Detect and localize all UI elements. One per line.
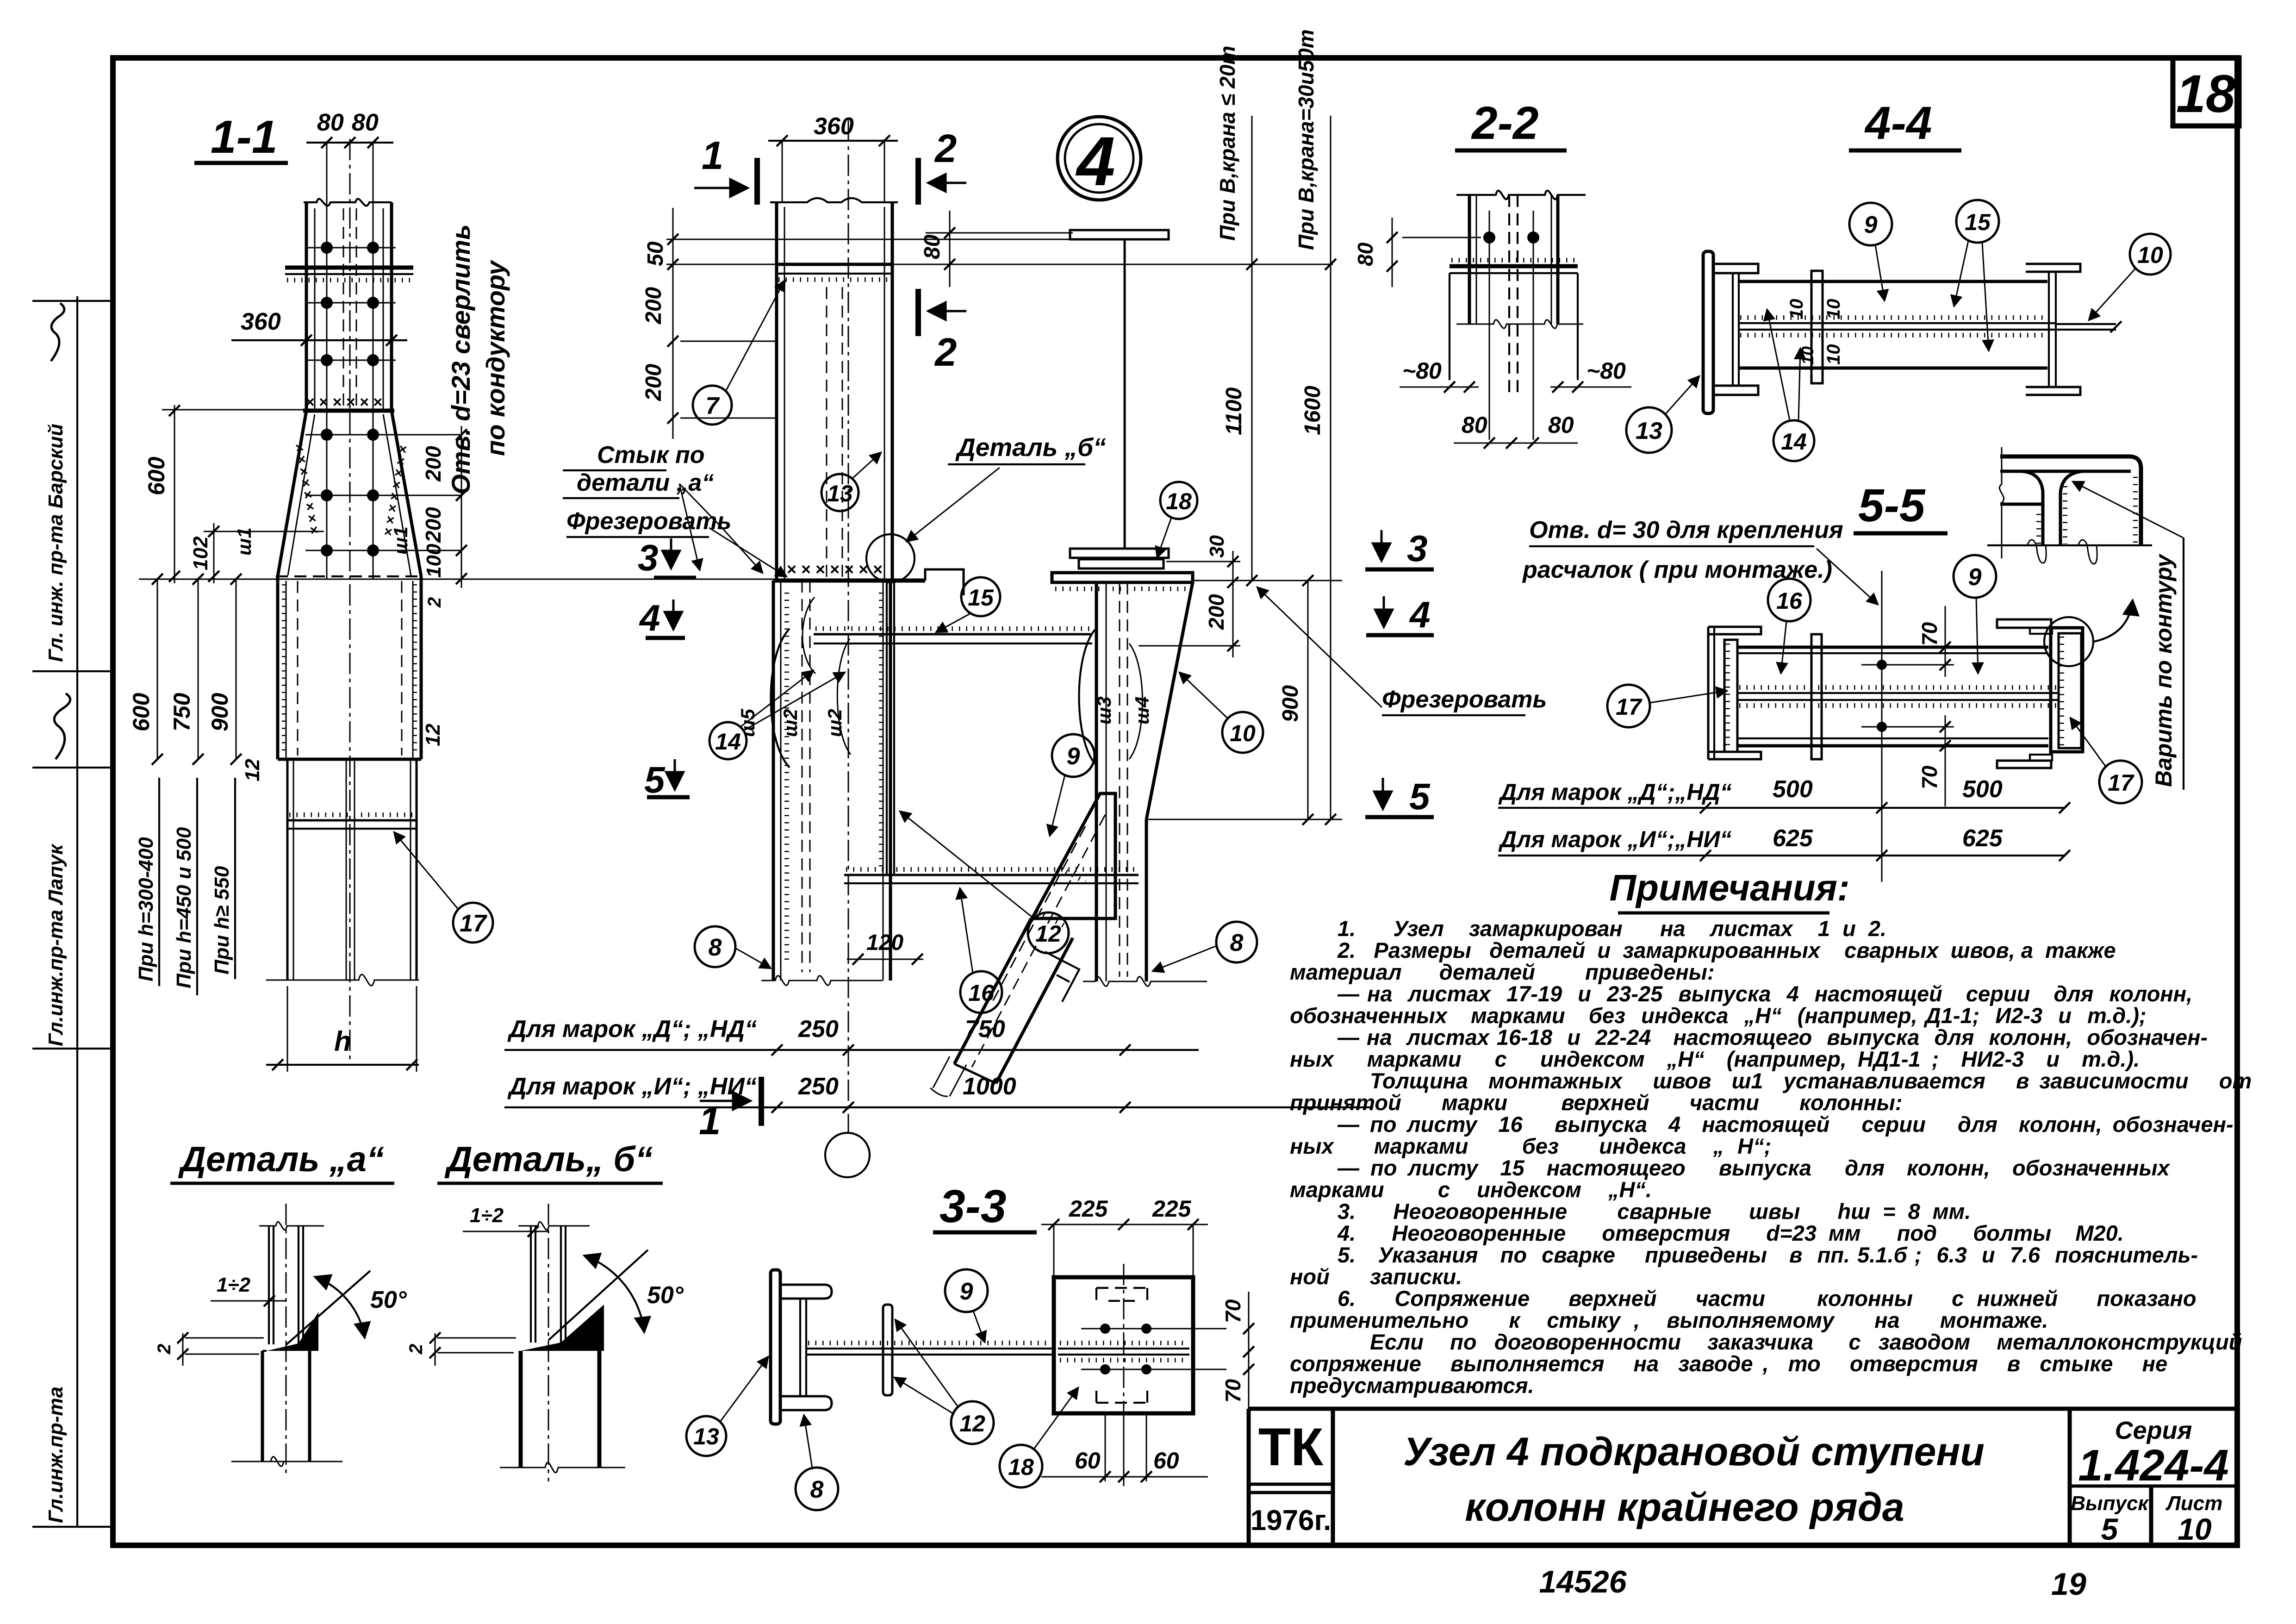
svg-text:7: 7 — [706, 393, 720, 419]
svg-text:50°: 50° — [647, 1282, 684, 1309]
svg-text:600: 600 — [128, 693, 154, 731]
svg-text:5. Указания по сварке: 5. Указания по сварке приведены в пп. 5.… — [1338, 1243, 2198, 1267]
svg-text:3: 3 — [1407, 528, 1428, 569]
svg-text:200: 200 — [641, 287, 666, 325]
svg-text:1÷2: 1÷2 — [470, 1204, 504, 1227]
svg-text:детали „а“: детали „а“ — [577, 469, 714, 496]
svg-text:Для марок „И“;„НИ“: Для марок „И“;„НИ“ — [1498, 826, 1731, 852]
svg-text:70: 70 — [1221, 1299, 1245, 1323]
svg-text:2: 2 — [424, 597, 445, 608]
svg-text:Лист: Лист — [2165, 1492, 2223, 1515]
svg-text:4. Неоговоренные отверстия: 4. Неоговоренные отверстия d=23 мм под б… — [1337, 1221, 2124, 1245]
svg-text:625: 625 — [1773, 825, 1813, 852]
svg-text:Серия: Серия — [2115, 1417, 2192, 1444]
svg-text:625: 625 — [1962, 825, 2003, 852]
svg-text:марками с индексом „Н“.: марками с индексом „Н“. — [1290, 1177, 1652, 1202]
svg-text:колонн крайнего ряда: колонн крайнего ряда — [1465, 1485, 1904, 1530]
svg-text:14526: 14526 — [1539, 1564, 1627, 1599]
svg-text:4: 4 — [639, 597, 660, 638]
svg-text:4: 4 — [1075, 122, 1115, 200]
svg-text:Примечания:: Примечания: — [1609, 867, 1849, 908]
svg-text:ш4: ш4 — [1131, 696, 1153, 725]
svg-text:При В,крана=30и50т: При В,крана=30и50т — [1294, 29, 1318, 250]
svg-text:Стык по: Стык по — [597, 442, 705, 468]
svg-text:2: 2 — [934, 127, 957, 171]
svg-text:6. Сопряжение верхней ча: 6. Сопряжение верхней части колонны с ни… — [1338, 1286, 2196, 1311]
svg-text:5-5: 5-5 — [1858, 480, 1926, 531]
svg-text:сопряжение выполняется на: сопряжение выполняется на заводе , то от… — [1290, 1351, 2167, 1376]
svg-text:70: 70 — [1917, 765, 1941, 789]
svg-text:При В,крана ≤ 20т: При В,крана ≤ 20т — [1215, 46, 1239, 241]
svg-text:15: 15 — [1965, 209, 1991, 235]
svg-text:ных марками с индексом: ных марками с индексом „Н“ (например, НД… — [1290, 1047, 2140, 1071]
svg-text:250: 250 — [798, 1016, 839, 1043]
svg-text:70: 70 — [1221, 1379, 1245, 1403]
svg-text:9: 9 — [1968, 564, 1982, 591]
svg-text:8: 8 — [1230, 930, 1244, 956]
svg-text:1.424-4: 1.424-4 — [2078, 1441, 2229, 1490]
svg-text:ш2: ш2 — [824, 709, 846, 737]
svg-text:Гл.инж.пр-та Лапук: Гл.инж.пр-та Лапук — [44, 843, 67, 1046]
svg-text:При h≥ 550: При h≥ 550 — [211, 866, 233, 974]
svg-text:1: 1 — [699, 1099, 721, 1143]
svg-text:Отв. d=23 сверлить: Отв. d=23 сверлить — [446, 225, 475, 494]
svg-text:Для марок „Д“; „НД“: Для марок „Д“; „НД“ — [507, 1016, 757, 1043]
svg-text:8: 8 — [709, 934, 722, 961]
svg-text:При h=450 и 500: При h=450 и 500 — [173, 827, 195, 988]
svg-text:1100: 1100 — [1222, 387, 1246, 435]
svg-text:200: 200 — [1204, 594, 1228, 630]
svg-text:80: 80 — [317, 109, 344, 136]
svg-text:13: 13 — [827, 481, 853, 506]
svg-text:5: 5 — [644, 759, 666, 800]
svg-text:h: h — [334, 1026, 351, 1057]
svg-text:1600: 1600 — [1300, 386, 1325, 435]
svg-text:750: 750 — [169, 693, 195, 731]
svg-text:1-1: 1-1 — [211, 111, 278, 163]
svg-text:~80: ~80 — [1587, 358, 1626, 384]
svg-text:17: 17 — [2108, 770, 2134, 796]
svg-text:750: 750 — [965, 1016, 1005, 1043]
svg-text:200: 200 — [421, 446, 445, 482]
svg-text:9: 9 — [1067, 743, 1080, 770]
svg-text:ных марками без индекса: ных марками без индекса „ Н“; — [1290, 1134, 1771, 1158]
svg-text:12: 12 — [959, 1411, 985, 1437]
svg-text:Если по договоренности за: Если по договоренности заказчика с завод… — [1370, 1330, 2242, 1354]
svg-text:9: 9 — [960, 1278, 973, 1305]
svg-text:900: 900 — [1278, 685, 1303, 722]
svg-text:10: 10 — [2178, 1512, 2212, 1546]
svg-text:50°: 50° — [370, 1287, 407, 1313]
svg-text:Выпуск: Выпуск — [2071, 1492, 2149, 1515]
svg-text:Отв. d= 30 для крепления: Отв. d= 30 для крепления — [1529, 517, 1843, 543]
svg-text:13: 13 — [693, 1424, 719, 1449]
svg-text:ш2: ш2 — [779, 709, 801, 737]
svg-text:60: 60 — [1075, 1448, 1101, 1474]
svg-text:— по листу 16 выпуска 4 н: — по листу 16 выпуска 4 настоящей серии … — [1337, 1112, 2234, 1137]
svg-text:ТК: ТК — [1258, 1418, 1324, 1477]
svg-text:8: 8 — [810, 1476, 824, 1503]
svg-text:Для марок „И“; „НИ“: Для марок „И“; „НИ“ — [507, 1073, 757, 1100]
svg-text:13: 13 — [1636, 418, 1662, 444]
svg-text:Толщина монтажных швов ш1: Толщина монтажных швов ш1 устанавливаетс… — [1370, 1068, 2252, 1093]
svg-text:10: 10 — [1823, 344, 1844, 365]
svg-text:10: 10 — [2137, 242, 2163, 268]
svg-text:1÷2: 1÷2 — [217, 1274, 251, 1296]
svg-text:18: 18 — [2176, 64, 2235, 124]
svg-text:200: 200 — [641, 364, 666, 401]
svg-text:4: 4 — [1409, 594, 1431, 635]
svg-text:ш1: ш1 — [390, 526, 411, 555]
svg-text:Варить по контуру: Варить по контуру — [2151, 554, 2177, 787]
svg-text:принятой марки верхней: принятой марки верхней части колонны: — [1290, 1090, 1903, 1115]
svg-text:100: 100 — [423, 543, 445, 578]
svg-text:ной записки.: ной записки. — [1290, 1264, 1462, 1289]
svg-text:по кондуктору: по кондуктору — [481, 259, 510, 456]
svg-text:~80: ~80 — [1402, 358, 1442, 384]
svg-text:80: 80 — [1353, 242, 1377, 266]
svg-text:Фрезеровать: Фрезеровать — [566, 508, 731, 535]
svg-text:1000: 1000 — [963, 1073, 1016, 1100]
svg-text:2. Размеры деталей и зам: 2. Размеры деталей и замаркированных сва… — [1337, 938, 2116, 962]
svg-text:ш3: ш3 — [1093, 696, 1115, 725]
svg-text:применительно к стыку , вы: применительно к стыку , выполняемому на … — [1290, 1308, 2048, 1332]
svg-text:10: 10 — [1786, 299, 1807, 320]
svg-text:30: 30 — [1206, 535, 1228, 558]
svg-text:60: 60 — [1153, 1448, 1179, 1474]
svg-text:14: 14 — [715, 729, 741, 755]
svg-text:16: 16 — [1776, 588, 1803, 614]
svg-text:4-4: 4-4 — [1864, 97, 1932, 149]
svg-text:80: 80 — [920, 234, 945, 259]
svg-text:225: 225 — [1152, 1196, 1192, 1222]
svg-text:1. Узел замаркирован на: 1. Узел замаркирован на листах 1 и 2. — [1338, 916, 1886, 941]
svg-text:12: 12 — [422, 724, 444, 746]
svg-text:200: 200 — [421, 507, 445, 543]
svg-text:1976г.: 1976г. — [1251, 1505, 1332, 1537]
svg-text:материал деталей приведен: материал деталей приведены: — [1290, 960, 1715, 984]
svg-text:80: 80 — [1548, 412, 1574, 438]
svg-text:Деталь„ б“: Деталь„ б“ — [444, 1140, 653, 1179]
svg-text:16: 16 — [968, 980, 995, 1006]
svg-text:50: 50 — [643, 241, 668, 266]
svg-text:12: 12 — [1035, 921, 1061, 947]
svg-text:5: 5 — [2101, 1512, 2119, 1546]
svg-text:80: 80 — [1462, 412, 1487, 438]
svg-text:15: 15 — [968, 585, 994, 611]
svg-text:900: 900 — [207, 693, 233, 731]
svg-text:80: 80 — [352, 109, 379, 136]
svg-text:3: 3 — [638, 537, 659, 578]
svg-text:500: 500 — [1773, 776, 1813, 803]
svg-text:3. Неоговоренные сварные: 3. Неоговоренные сварные швы hш = 8 мм. — [1338, 1199, 1971, 1224]
svg-text:Деталь „б“: Деталь „б“ — [955, 433, 1106, 462]
svg-text:— на листах 17-19 и 23-25: — на листах 17-19 и 23-25 выпуска 4 наст… — [1337, 981, 2192, 1006]
svg-text:2: 2 — [154, 1344, 174, 1355]
svg-text:Деталь „а“: Деталь „а“ — [178, 1140, 384, 1179]
svg-text:Для марок „Д“;„НД“: Для марок „Д“;„НД“ — [1498, 779, 1732, 805]
svg-text:2-2: 2-2 — [1471, 97, 1539, 149]
svg-text:19: 19 — [2051, 1567, 2086, 1602]
svg-text:18: 18 — [1008, 1454, 1034, 1480]
svg-text:обозначенных марками без: обозначенных марками без индекса „Н“ (на… — [1290, 1003, 2147, 1028]
svg-text:5: 5 — [1409, 776, 1431, 817]
svg-text:1: 1 — [702, 134, 723, 178]
svg-text:500: 500 — [1962, 776, 2003, 803]
svg-text:250: 250 — [798, 1073, 839, 1100]
svg-text:14: 14 — [1781, 429, 1807, 455]
svg-text:При h=300-400: При h=300-400 — [135, 837, 157, 981]
svg-text:225: 225 — [1069, 1196, 1108, 1222]
svg-text:70: 70 — [1917, 622, 1941, 646]
svg-text:17: 17 — [1616, 694, 1643, 720]
svg-text:× × × × × ×: × × × × × × — [305, 394, 382, 411]
svg-text:120: 120 — [866, 931, 903, 955]
svg-text:— на листах 16-18 и 22-24: — на листах 16-18 и 22-24 настоящего вып… — [1337, 1025, 2208, 1049]
svg-text:Фрезеровать: Фрезеровать — [1382, 686, 1547, 713]
svg-text:— по листу 15 настоящего в: — по листу 15 настоящего выпуска для кол… — [1337, 1156, 2171, 1180]
svg-text:12: 12 — [241, 759, 264, 781]
svg-text:10: 10 — [1230, 720, 1256, 746]
svg-text:3-3: 3-3 — [940, 1181, 1007, 1232]
svg-text:9: 9 — [1864, 212, 1878, 238]
svg-text:17: 17 — [460, 910, 487, 937]
svg-text:Гл. инж. пр-та Барский: Гл. инж. пр-та Барский — [44, 424, 67, 662]
svg-text:10: 10 — [1823, 299, 1844, 320]
svg-text:18: 18 — [1166, 488, 1192, 514]
svg-text:2: 2 — [406, 1344, 426, 1355]
svg-text:2: 2 — [934, 331, 957, 375]
svg-text:Узел 4 подкрановой ступени: Узел 4 подкрановой ступени — [1403, 1430, 1985, 1474]
svg-text:102: 102 — [189, 536, 212, 570]
svg-text:360: 360 — [241, 308, 281, 335]
svg-text:600: 600 — [143, 456, 169, 495]
svg-text:Гл.инж.пр-та: Гл.инж.пр-та — [44, 1387, 67, 1523]
svg-text:предусматриваются.: предусматриваются. — [1290, 1373, 1534, 1398]
